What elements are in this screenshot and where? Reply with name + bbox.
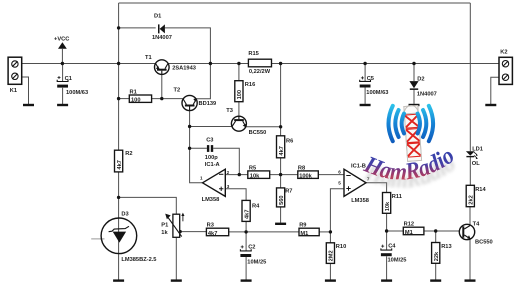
svg-text:10k: 10k bbox=[250, 174, 260, 180]
wire R6 bottom to row bbox=[280, 158, 282, 188]
svg-text:1k: 1k bbox=[161, 230, 168, 236]
node R12 / R13 / T4 base bbox=[434, 229, 437, 232]
svg-text:5: 5 bbox=[338, 181, 341, 186]
svg-text:R5: R5 bbox=[249, 165, 256, 171]
diode D2 1N4007 bbox=[409, 76, 436, 97]
svg-text:R7: R7 bbox=[285, 189, 292, 195]
wire main rail R15 to K2 bbox=[272, 63, 500, 65]
transistor T2 BD139 bbox=[174, 87, 217, 110]
svg-text:M1: M1 bbox=[300, 231, 308, 237]
wire K1 lower terminal to ground bbox=[22, 77, 29, 104]
ground P1 bbox=[171, 279, 182, 281]
wire IC1-A pin3 to R4 bbox=[225, 189, 246, 201]
svg-text:T2: T2 bbox=[174, 87, 181, 93]
node VCC/C1 on rail bbox=[61, 62, 64, 65]
svg-text:K2: K2 bbox=[500, 50, 507, 56]
svg-text:100: 100 bbox=[237, 90, 243, 100]
node T1 collector on rail bbox=[209, 62, 212, 65]
wire rail down to R6 bbox=[280, 64, 282, 136]
ground C2 bbox=[241, 279, 252, 281]
wire T1 base down bbox=[161, 74, 163, 98]
svg-text:2: 2 bbox=[227, 170, 230, 175]
wire T4 collector to R14 bbox=[469, 207, 471, 226]
op-amp IC1-A LM358 bbox=[200, 162, 230, 203]
resistor R2 4k7 bbox=[115, 150, 133, 172]
svg-text:2M2: 2M2 bbox=[329, 250, 335, 261]
svg-text:R13: R13 bbox=[441, 244, 451, 250]
node R3 / R4 / C2 / R9 bbox=[244, 230, 247, 233]
wire top rail bbox=[119, 2, 471, 4]
wire rail to R16 bbox=[238, 64, 240, 81]
wire C5 top bbox=[364, 64, 366, 82]
svg-text:R14: R14 bbox=[475, 187, 486, 193]
svg-text:1N4007: 1N4007 bbox=[152, 35, 172, 41]
svg-text:2k2: 2k2 bbox=[469, 195, 475, 205]
wire R10 bottom to ground bbox=[329, 263, 331, 279]
logo radio mast bbox=[404, 105, 422, 161]
svg-text:6: 6 bbox=[338, 170, 341, 175]
wire D2 top bbox=[413, 64, 415, 82]
wire D1 left branch bbox=[119, 27, 156, 29]
svg-text:T4: T4 bbox=[473, 222, 480, 228]
svg-text:C4: C4 bbox=[388, 244, 396, 250]
wire T4 emitter to ground bbox=[469, 239, 471, 280]
svg-text:D1: D1 bbox=[154, 14, 161, 20]
terminal K2 bbox=[499, 50, 512, 85]
svg-text:2SA1943: 2SA1943 bbox=[172, 65, 196, 71]
resistor R12 M1 bbox=[403, 221, 424, 236]
node left vertical on rail bbox=[117, 62, 120, 65]
node R1 left bbox=[117, 97, 120, 100]
wire R11 to C4 bbox=[386, 213, 388, 250]
svg-text:C1: C1 bbox=[65, 76, 72, 82]
svg-text:10k: 10k bbox=[385, 201, 391, 211]
wire R7 bottom to ground bbox=[280, 207, 282, 223]
wire R1 right to T1/T2 bases bbox=[152, 98, 183, 100]
node P1 wiper bbox=[178, 230, 181, 233]
svg-text:R12: R12 bbox=[404, 221, 414, 227]
svg-text:BC550: BC550 bbox=[475, 240, 493, 246]
svg-text:100k: 100k bbox=[299, 174, 312, 180]
wire T3 base bbox=[190, 126, 232, 128]
logo HamRadio text bbox=[360, 143, 460, 194]
wire LED to R14 bbox=[469, 157, 471, 185]
resistor R7 560 bbox=[277, 188, 293, 207]
wire P1 wiper to R3 bbox=[180, 231, 207, 233]
terminal K1 bbox=[8, 57, 22, 94]
svg-text:P1: P1 bbox=[161, 223, 168, 229]
wire C2 top bbox=[245, 232, 247, 251]
LED LD1 OL bbox=[466, 146, 483, 167]
svg-text:R9: R9 bbox=[299, 222, 306, 228]
wire C5 bottom to ground bbox=[364, 86, 366, 104]
wire K2 lower terminal to ground bbox=[491, 77, 499, 104]
node D1 left bbox=[117, 26, 120, 29]
node C3 left bbox=[188, 147, 191, 150]
node R6 on rail bbox=[279, 62, 282, 65]
wire main rail T1 to R15 bbox=[168, 63, 248, 65]
wire T3 emitter to R6 column bbox=[246, 126, 281, 128]
svg-text:4k7: 4k7 bbox=[117, 160, 123, 170]
wire LED column from top rail bbox=[469, 3, 471, 151]
wire D1 right branch to T1 collector node bbox=[165, 28, 211, 64]
svg-text:100: 100 bbox=[131, 97, 141, 103]
svg-text:BC550: BC550 bbox=[249, 130, 267, 136]
svg-text:100M/63: 100M/63 bbox=[366, 90, 388, 96]
svg-text:+VCC: +VCC bbox=[54, 37, 69, 43]
transistor T4 BC550 bbox=[459, 222, 492, 246]
svg-text:1: 1 bbox=[200, 176, 203, 181]
wire D2 bottom to ground bbox=[413, 90, 415, 104]
voltage reference D3 LM385BZ-2.5 bbox=[101, 212, 156, 263]
svg-text:D2: D2 bbox=[417, 76, 424, 82]
diode D1 1N4007 bbox=[152, 14, 172, 41]
logo radio waves bbox=[389, 106, 434, 141]
wire R12 to T4 base bbox=[424, 230, 460, 232]
resistor R16 100 bbox=[235, 81, 255, 102]
node pin2 / C3 / R5 bbox=[238, 173, 241, 176]
svg-text:LD1: LD1 bbox=[472, 146, 483, 152]
svg-text:R16: R16 bbox=[245, 82, 255, 88]
resistor R8 100k bbox=[298, 165, 319, 179]
node R11 / R12 / C4 bbox=[385, 229, 388, 232]
op-amp IC1-B LM358 bbox=[338, 164, 370, 204]
ground K2 bbox=[485, 104, 496, 106]
wire C3 left bbox=[190, 147, 207, 149]
svg-text:LM385BZ-2.5: LM385BZ-2.5 bbox=[121, 257, 156, 263]
wire P1 bottom to ground bbox=[175, 237, 177, 279]
resistor R11 10k bbox=[383, 193, 402, 214]
ground D2 bbox=[409, 104, 420, 106]
resistor R1 100 bbox=[129, 89, 151, 103]
ground R10 bbox=[325, 279, 336, 281]
transistor T3 BC550 bbox=[226, 108, 266, 136]
node T1 base / R1 bbox=[160, 97, 163, 100]
svg-text:R8: R8 bbox=[298, 165, 305, 171]
resistor R13 22k bbox=[432, 243, 452, 264]
ground C1 bbox=[57, 104, 68, 106]
node C5 on rail bbox=[363, 62, 366, 65]
svg-text:4k7: 4k7 bbox=[244, 210, 250, 220]
wire C3 right down to inverting input bbox=[213, 148, 239, 174]
svg-text:R1: R1 bbox=[130, 89, 137, 95]
capacitor C1 100M/63 bbox=[57, 76, 88, 96]
node R9 / R10 / pin5 bbox=[329, 230, 332, 233]
wire C4 bottom to ground bbox=[386, 256, 388, 279]
wire VCC stem bbox=[61, 49, 63, 64]
wire R3 to R9 bbox=[229, 231, 299, 233]
svg-text:LM358: LM358 bbox=[351, 198, 369, 204]
node R16 on rail bbox=[237, 62, 240, 65]
svg-text:10M/25: 10M/25 bbox=[388, 258, 407, 264]
svg-text:10M/25: 10M/25 bbox=[247, 260, 266, 266]
resistor R14 2k2 bbox=[466, 185, 486, 206]
svg-text:4k7: 4k7 bbox=[208, 231, 218, 237]
svg-text:3: 3 bbox=[227, 184, 230, 189]
node R2 / D3 / P1 bbox=[117, 196, 120, 199]
resistor R4 4k7 bbox=[242, 200, 260, 221]
svg-text:IC1-A: IC1-A bbox=[205, 162, 220, 168]
wire R1 left bbox=[119, 98, 130, 100]
svg-text:R2: R2 bbox=[125, 151, 132, 157]
capacitor C3 100p bbox=[205, 137, 218, 160]
svg-text:R6: R6 bbox=[286, 138, 293, 144]
ground D3 bbox=[113, 279, 124, 281]
wire main rail K1 to T1 bbox=[22, 63, 156, 65]
wire C2 bottom to ground bbox=[245, 256, 247, 279]
wire R4 bottom bbox=[245, 221, 247, 232]
wire R13 bottom to ground bbox=[435, 263, 437, 279]
svg-text:100M/63: 100M/63 bbox=[66, 90, 88, 96]
wire node to R12 bbox=[387, 230, 404, 232]
wire R10 top bbox=[329, 232, 331, 243]
node T3 emitter / R6 bbox=[279, 125, 282, 128]
svg-text:0,22/2W: 0,22/2W bbox=[249, 69, 271, 75]
capacitor C2 10M/25 bbox=[240, 245, 266, 266]
wire R2 bottom through D3 to ground bbox=[118, 172, 120, 280]
wire R13 top bbox=[435, 231, 437, 243]
svg-text:C3: C3 bbox=[206, 137, 213, 143]
wire IC1-B pin7 to R11 bbox=[366, 183, 387, 193]
capacitor C4 10M/25 bbox=[381, 244, 407, 264]
svg-text:D3: D3 bbox=[121, 212, 128, 218]
svg-text:R10: R10 bbox=[336, 244, 346, 250]
node T2 emitter / T3 base bbox=[188, 125, 191, 128]
svg-text:LM358: LM358 bbox=[202, 197, 220, 203]
svg-text:R3: R3 bbox=[207, 222, 214, 228]
ground R13 bbox=[430, 279, 441, 281]
svg-text:K1: K1 bbox=[10, 88, 17, 94]
svg-text:M1: M1 bbox=[405, 230, 413, 236]
wire C1 bottom to ground bbox=[62, 88, 64, 104]
resistor R10 2M2 bbox=[326, 243, 346, 264]
wire R8 to IC1-B pin6 bbox=[318, 174, 344, 176]
wire R5 to R8 bbox=[270, 174, 298, 176]
wire IC1-A pin2 to R5 bbox=[225, 174, 248, 176]
wire D3 anode stub bbox=[91, 238, 104, 240]
resistor R5 10k bbox=[248, 165, 270, 179]
ground K1 bbox=[23, 104, 34, 106]
node R5 / R6 / R7 / R8 bbox=[279, 173, 282, 176]
capacitor C5 100M/63 bbox=[360, 76, 389, 96]
resistor R9 M1 bbox=[299, 222, 319, 237]
resistor R6 4k7 bbox=[277, 136, 294, 158]
transistor T1 2SA1943 bbox=[145, 55, 196, 74]
ground C5 bbox=[360, 104, 371, 106]
svg-text:R11: R11 bbox=[392, 194, 402, 200]
svg-text:T3: T3 bbox=[226, 108, 233, 114]
svg-text:560: 560 bbox=[279, 195, 285, 205]
svg-text:R4: R4 bbox=[252, 204, 260, 210]
svg-text:100p: 100p bbox=[205, 155, 218, 161]
ground R7 bbox=[275, 223, 286, 225]
power +VCC bbox=[54, 37, 69, 49]
svg-text:T1: T1 bbox=[145, 55, 152, 61]
svg-text:C2: C2 bbox=[248, 245, 255, 251]
wire node to P1 top bbox=[119, 197, 177, 214]
wire left vertical from top rail to R2 bbox=[118, 3, 120, 150]
svg-text:4k7: 4k7 bbox=[279, 146, 285, 156]
potentiometer P1 1k bbox=[161, 213, 184, 238]
svg-text:1N4007: 1N4007 bbox=[417, 92, 437, 98]
wire node up to IC1-B pin5 bbox=[330, 189, 344, 232]
wire R9 to node bbox=[319, 231, 330, 233]
wire C1 top bbox=[62, 64, 64, 82]
svg-text:BD139: BD139 bbox=[199, 101, 217, 107]
node D2 on rail bbox=[412, 62, 415, 65]
wire R16 to T3 collector bbox=[238, 102, 240, 117]
svg-text:R15: R15 bbox=[248, 51, 258, 57]
wire T2 emitter down to IC1-A output bbox=[190, 111, 203, 183]
ground T4 bbox=[465, 279, 476, 281]
wire T2 collector up bbox=[197, 64, 211, 99]
svg-text:OL: OL bbox=[472, 161, 480, 167]
svg-text:C5: C5 bbox=[367, 76, 374, 82]
svg-text:22k: 22k bbox=[434, 251, 440, 261]
resistor R3 4k7 bbox=[206, 222, 228, 237]
ground C4 bbox=[381, 279, 392, 281]
resistor R15 0,22/2W bbox=[248, 51, 271, 75]
